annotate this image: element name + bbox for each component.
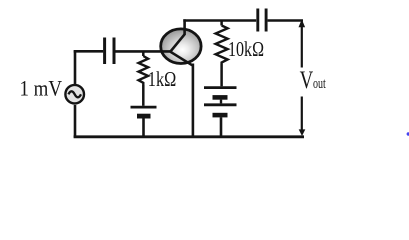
svg-text:out: out — [313, 76, 326, 92]
bottom rail wire — [74, 135, 304, 138]
capacitor C2 — [258, 9, 266, 32]
battery B2 — [204, 88, 237, 138]
wire top rail left segment — [183, 19, 256, 22]
wire top rail right segment — [268, 19, 303, 22]
resistor R1 — [139, 51, 149, 106]
V_out arrow — [298, 19, 314, 136]
voltage source VS — [65, 85, 84, 104]
wire base — [116, 50, 172, 53]
wire emitter — [192, 64, 195, 138]
svg-text:1 mV: 1 mV — [20, 76, 63, 101]
label V out — [300, 67, 327, 94]
svg-text:10kΩ: 10kΩ — [228, 37, 264, 61]
wire left vertical top — [74, 50, 77, 86]
stray blue dot artifact — [407, 132, 409, 135]
transistor Q1 — [161, 29, 201, 65]
wire left vertical bottom — [74, 105, 77, 138]
svg-text:1kΩ: 1kΩ — [148, 67, 177, 91]
capacitor C1 — [105, 38, 114, 65]
wire collector — [183, 19, 186, 35]
resistor R2 — [216, 21, 228, 87]
battery B1 — [131, 107, 157, 137]
svg-text:V: V — [300, 67, 314, 94]
wire top-left horizontal — [74, 50, 104, 53]
